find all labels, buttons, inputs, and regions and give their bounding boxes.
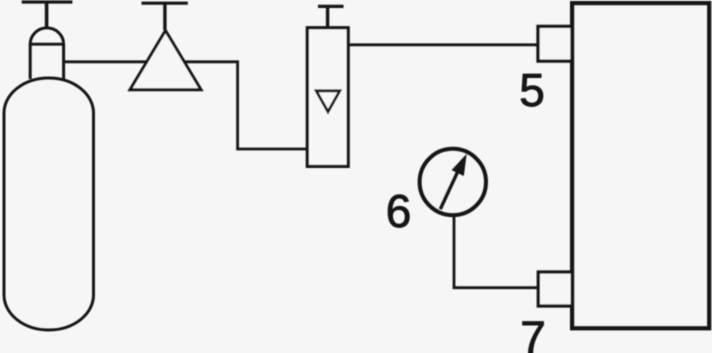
gas cylinder CY1: bottle body xyxy=(4,78,94,330)
pressure gauge G1 (item 6): dial circle xyxy=(420,149,486,215)
wire: flowmeter outlet to port 5 xyxy=(348,43,538,46)
gas cylinder CY1: neck separation line xyxy=(30,43,63,46)
flowmeter FM1: tube body xyxy=(307,28,348,167)
svg-text:5: 5 xyxy=(519,64,545,116)
wire: gauge to port 7 xyxy=(454,214,539,288)
pressure gauge G1: needle shaft xyxy=(440,167,460,209)
wire: valve V1 to flowmeter inlet (right, down, right) xyxy=(184,62,306,149)
gas cylinder CY1: valve stem xyxy=(45,2,49,27)
valve V1: triangle body xyxy=(130,31,201,90)
pressure gauge G1: needle arrowhead xyxy=(452,155,466,175)
wire: cylinder to valve V1 xyxy=(64,60,149,63)
gas cylinder CY1: neck/valve body dome xyxy=(30,28,63,79)
valve V1: handwheel T-bar xyxy=(142,2,188,5)
flowmeter FM1: float indicator triangle xyxy=(316,91,340,112)
gas cylinder CY1: handwheel T-bar xyxy=(22,0,73,3)
flowmeter FM1: handwheel T-bar xyxy=(318,5,344,8)
svg-text:6: 6 xyxy=(386,185,412,237)
port 5: inlet stub box xyxy=(538,26,572,61)
flowmeter FM1: stem xyxy=(326,6,329,27)
svg-text:7: 7 xyxy=(520,312,546,353)
valve V1: stem xyxy=(163,3,166,30)
port 7: gauge stub box xyxy=(538,272,572,306)
test chamber CH1: enclosure body xyxy=(572,3,709,328)
